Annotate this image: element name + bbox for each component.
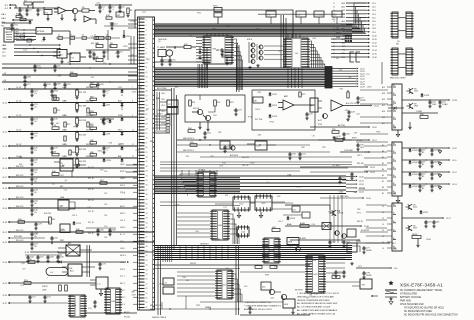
resistor R5 bbox=[82, 7, 95, 12]
resistor R1 bbox=[24, 0, 32, 8]
svg-text:C.S: C.S bbox=[88, 308, 92, 310]
svg-text:VR1: VR1 bbox=[267, 15, 271, 17]
wire B3 terminations bbox=[346, 176, 364, 194]
svg-text:R50 4.7K: R50 4.7K bbox=[16, 240, 24, 242]
wire W31 bbox=[155, 268, 241, 270]
svg-text:12: 12 bbox=[132, 156, 134, 158]
wire W48 bbox=[160, 201, 285, 203]
capacitor on J1-10 a bbox=[30, 103, 38, 111]
ic U5 bbox=[390, 12, 413, 43]
diode CR23 bbox=[287, 216, 296, 220]
resistor col x55 bbox=[54, 95, 61, 113]
svg-text:K12: K12 bbox=[337, 136, 340, 138]
svg-text:R74: R74 bbox=[57, 75, 60, 77]
box U15 bbox=[347, 229, 356, 237]
wire W13 bbox=[310, 124, 377, 129]
svg-text:CMX: CMX bbox=[432, 104, 437, 106]
svg-text:CR26: CR26 bbox=[367, 86, 372, 88]
ic U19 bbox=[305, 255, 326, 293]
svg-text:COAX: COAX bbox=[442, 103, 448, 106]
svg-text:R31 2W: R31 2W bbox=[79, 92, 86, 94]
diode J1-12 end bbox=[121, 132, 124, 136]
ground G9 bbox=[346, 118, 349, 121]
svg-text:K79: K79 bbox=[115, 53, 118, 55]
svg-text:CR56: CR56 bbox=[250, 163, 255, 165]
svg-text:VR2: VR2 bbox=[117, 15, 121, 17]
ground G3 bbox=[73, 14, 76, 21]
capacitor C63 bbox=[430, 184, 440, 192]
resistor R26 bbox=[347, 90, 349, 98]
svg-text:Z7: Z7 bbox=[121, 146, 123, 148]
resistor R59 bbox=[332, 129, 339, 133]
wire row J1-11 bbox=[3, 115, 138, 119]
svg-text:R44: R44 bbox=[109, 46, 112, 48]
wire RB2 row 2 bbox=[402, 171, 457, 174]
wire W12 bbox=[200, 95, 215, 112]
svg-text:J2-31: J2-31 bbox=[359, 180, 364, 182]
label GND strip bbox=[158, 39, 167, 41]
svg-text:U21: U21 bbox=[336, 58, 339, 60]
svg-text:WHT: WHT bbox=[3, 49, 7, 51]
svg-text:DEM: DEM bbox=[336, 37, 341, 39]
svg-text:L14: L14 bbox=[35, 208, 38, 210]
ground J1-12 r bbox=[75, 139, 78, 142]
transistor Q18 bbox=[406, 225, 418, 231]
resistor RB1 bbox=[70, 72, 77, 76]
wire stair3 bbox=[352, 10, 366, 26]
svg-text:B2: B2 bbox=[382, 181, 384, 183]
wire W47 bbox=[8, 237, 45, 239]
capacitor C8 bbox=[102, 50, 109, 58]
svg-text:LIN0: LIN0 bbox=[15, 29, 19, 31]
resistor R53 bbox=[24, 280, 31, 285]
svg-text:56: 56 bbox=[146, 279, 148, 281]
svg-text:* DENOTES J CONNECTOR: * DENOTES J CONNECTOR bbox=[244, 302, 271, 304]
wire stair2 bbox=[352, 7, 366, 26]
wire feed c1 bbox=[366, 211, 387, 213]
capacitor C61 bbox=[430, 160, 440, 168]
wire W52 bbox=[16, 34, 34, 42]
svg-text:R47 4.7K: R47 4.7K bbox=[16, 197, 24, 199]
label J1-21 v bbox=[16, 230, 24, 232]
op-amp AR4 bbox=[331, 100, 379, 111]
wire stair4 bbox=[352, 14, 366, 28]
box X1 bbox=[163, 278, 174, 294]
capacitor on J1-13 c bbox=[50, 146, 58, 154]
resistor R56 bbox=[270, 266, 277, 269]
svg-text:C1 .02: C1 .02 bbox=[16, 100, 21, 102]
label J1-20 v bbox=[16, 206, 24, 208]
capacitor on J1-9 a bbox=[30, 89, 38, 97]
svg-text:J2-26: J2-26 bbox=[372, 127, 377, 129]
svg-text:C55 .1: C55 .1 bbox=[278, 221, 283, 223]
transistor Q13 bbox=[330, 210, 344, 216]
resistor R58 bbox=[18, 219, 25, 223]
svg-text:14: 14 bbox=[333, 14, 335, 16]
resistor R25 bbox=[299, 92, 306, 97]
svg-text:22: 22 bbox=[333, 42, 335, 44]
svg-text:12: 12 bbox=[333, 6, 335, 8]
svg-text:16: 16 bbox=[146, 91, 148, 93]
svg-text:38: 38 bbox=[146, 194, 148, 196]
resistor R9 bbox=[96, 57, 103, 62]
svg-text:C20: C20 bbox=[297, 15, 300, 17]
svg-text:J2-33: J2-33 bbox=[370, 167, 375, 169]
resistor R51 bbox=[412, 234, 421, 239]
ground G1 bbox=[46, 18, 49, 21]
svg-text:J2-12: J2-12 bbox=[372, 43, 377, 45]
svg-text:17: 17 bbox=[146, 95, 148, 97]
svg-text:Z0: Z0 bbox=[121, 109, 123, 111]
svg-text:J2-6: J2-6 bbox=[372, 21, 376, 23]
strip pin labels left bbox=[121, 89, 123, 160]
label misc3 bbox=[44, 213, 77, 217]
capacitor C73 bbox=[93, 300, 96, 308]
svg-text:MTLB: MTLB bbox=[247, 39, 253, 41]
label J1-12 l2 bbox=[16, 129, 67, 131]
diode CR16 bbox=[421, 93, 430, 97]
svg-text:J1-11: J1-11 bbox=[3, 117, 7, 119]
svg-text:A8: A8 bbox=[343, 31, 345, 34]
svg-text:R27 10K: R27 10K bbox=[255, 119, 263, 121]
svg-text:CR15: CR15 bbox=[76, 223, 82, 225]
capacitor C52 bbox=[328, 240, 336, 248]
transistor Q21 bbox=[281, 294, 286, 299]
svg-text:U7: U7 bbox=[169, 104, 171, 106]
svg-text:J2-27: J2-27 bbox=[372, 140, 377, 142]
wire W51 bbox=[16, 35, 34, 38]
svg-text:TP52: TP52 bbox=[289, 247, 293, 249]
wire row J1-18 bbox=[2, 186, 137, 190]
ic U9 bbox=[196, 172, 217, 197]
capacitor C30 bbox=[288, 152, 296, 160]
diode J1-11 end bbox=[121, 117, 124, 121]
capacitor C5 bbox=[108, 5, 115, 13]
ic A8 driver bbox=[392, 84, 402, 130]
svg-text:15: 15 bbox=[146, 86, 148, 88]
svg-text:U15: U15 bbox=[59, 163, 62, 165]
wire vert W28 bbox=[87, 245, 90, 277]
svg-text:SPK 4: SPK 4 bbox=[120, 269, 125, 271]
wire row J1-26 bbox=[2, 294, 70, 297]
svg-text:J2-36: J2-36 bbox=[366, 198, 371, 200]
resistor J1-10 mid bbox=[52, 96, 59, 100]
svg-text:3: 3 bbox=[146, 30, 147, 32]
capacitor C14 bbox=[160, 57, 168, 67]
capacitor C12b bbox=[110, 22, 118, 30]
svg-text:J1-28: J1-28 bbox=[3, 222, 8, 224]
wire W9 bbox=[155, 47, 210, 70]
svg-text:R2: R2 bbox=[306, 297, 308, 299]
diode CR22 bbox=[59, 261, 62, 264]
wire row J1-22 bbox=[2, 240, 154, 244]
diode CR19 bbox=[409, 172, 418, 176]
wire W21 bbox=[215, 203, 290, 204]
capacitor C76 bbox=[342, 270, 345, 278]
svg-text:K13: K13 bbox=[225, 195, 228, 197]
svg-text:45: 45 bbox=[146, 227, 148, 229]
svg-text:C6: C6 bbox=[382, 212, 384, 214]
op-amp AR1 bbox=[54, 7, 72, 14]
capacitor above C17 bbox=[23, 83, 31, 89]
svg-text:Q41: Q41 bbox=[87, 207, 91, 209]
svg-text:MIC MUTE LN: MIC MUTE LN bbox=[150, 305, 162, 307]
wire feed 0 bbox=[360, 89, 388, 91]
resistor R8 bbox=[110, 43, 117, 48]
resistor J1-11 x92 bbox=[90, 111, 97, 115]
wire U3 bottom risers bbox=[198, 64, 208, 88]
svg-text:U38: U38 bbox=[353, 192, 356, 194]
svg-text:J1-26: J1-26 bbox=[2, 295, 7, 297]
bypass row bbox=[258, 11, 345, 24]
svg-text:ALL RESISTANCE VALUES IN OHMS: ALL RESISTANCE VALUES IN OHMS 1/4W bbox=[297, 302, 337, 305]
svg-text:RED NOTE 2: RED NOTE 2 bbox=[183, 150, 194, 152]
svg-text:C96: C96 bbox=[104, 237, 107, 239]
resistor J1-14 mid bbox=[52, 152, 59, 156]
svg-text:R32 2W: R32 2W bbox=[79, 106, 86, 108]
svg-text:AD7: AD7 bbox=[342, 27, 346, 30]
ground G8 bbox=[206, 121, 209, 131]
diode CR4b bbox=[29, 20, 32, 24]
resistor pair x70 bbox=[69, 150, 76, 155]
svg-text:Z0: Z0 bbox=[121, 119, 123, 121]
svg-text:J1-18: J1-18 bbox=[2, 188, 7, 190]
svg-text:C87 .05: C87 .05 bbox=[242, 165, 248, 167]
diode CR11 bbox=[269, 92, 278, 96]
svg-text:CR95: CR95 bbox=[34, 232, 39, 234]
capacitor C59 bbox=[418, 184, 426, 192]
svg-text:TP9: TP9 bbox=[322, 147, 325, 149]
box U8a bbox=[253, 97, 263, 103]
svg-text:11: 11 bbox=[333, 3, 335, 5]
svg-text:MIC 3: MIC 3 bbox=[120, 199, 125, 201]
wire feed c3 bbox=[366, 227, 387, 229]
svg-text:TP67: TP67 bbox=[328, 212, 332, 214]
svg-text:J1-27: J1-27 bbox=[2, 303, 7, 305]
wire row J1-16 bbox=[2, 166, 137, 170]
svg-text:B5: B5 bbox=[382, 193, 384, 195]
capacitor C54b bbox=[338, 176, 348, 184]
svg-text:C/DIN: C/DIN bbox=[412, 162, 418, 164]
svg-text:COM GND: COM GND bbox=[344, 150, 354, 152]
ic U13 bbox=[255, 194, 272, 211]
svg-text:J1-2: J1-2 bbox=[4, 8, 8, 10]
svg-text:R48 4.7K: R48 4.7K bbox=[16, 206, 24, 208]
capacitor on J1-9 b bbox=[102, 89, 110, 97]
wire loop1 bbox=[185, 95, 245, 122]
resistor R14 bbox=[106, 15, 112, 19]
svg-text:C4 .02: C4 .02 bbox=[16, 144, 21, 146]
svg-text:PN 103: PN 103 bbox=[124, 317, 130, 319]
svg-text:U69: U69 bbox=[146, 59, 149, 61]
ground G18 bbox=[350, 262, 353, 265]
box 4MHZ bbox=[222, 52, 232, 62]
wire W44 bbox=[160, 168, 348, 171]
capacitor row J1-17 bbox=[30, 176, 38, 185]
svg-text:C90: C90 bbox=[104, 171, 107, 173]
svg-text:R75 1K: R75 1K bbox=[88, 222, 95, 224]
svg-text:LIN 1: LIN 1 bbox=[161, 99, 165, 101]
svg-text:Q20: Q20 bbox=[21, 263, 25, 265]
capacitor C12 bbox=[92, 52, 95, 60]
svg-text:J1-17: J1-17 bbox=[2, 177, 7, 179]
svg-text:58: 58 bbox=[146, 288, 148, 290]
svg-text:L90: L90 bbox=[67, 276, 70, 278]
svg-text:CR92: CR92 bbox=[123, 46, 128, 48]
capacitor on J1-9 c bbox=[50, 89, 58, 97]
star mark bbox=[388, 281, 393, 286]
diode CR13 bbox=[269, 114, 278, 118]
svg-text:X1: X1 bbox=[165, 283, 167, 285]
ic U4 bbox=[283, 38, 310, 68]
svg-text:J1-8: J1-8 bbox=[2, 56, 6, 58]
box L3 bbox=[90, 277, 108, 289]
ground tri 1 bbox=[438, 162, 441, 166]
svg-text:7: 7 bbox=[132, 87, 133, 89]
svg-text:SPD GND: SPD GND bbox=[340, 196, 349, 198]
svg-text:L21: L21 bbox=[82, 295, 85, 297]
svg-text:RMT 5: RMT 5 bbox=[120, 297, 125, 299]
svg-text:NT INDICATES NO ISLATED OR HOL: NT INDICATES NO ISLATED OR HOLE bbox=[404, 307, 445, 310]
wire W22d bbox=[320, 196, 371, 200]
svg-text:U11: U11 bbox=[226, 268, 229, 270]
resistor J1-14 x92 bbox=[90, 152, 97, 156]
svg-text:R201: R201 bbox=[213, 6, 218, 8]
transistor Q1 bbox=[72, 8, 82, 13]
svg-text:PUR R: PUR R bbox=[42, 286, 48, 288]
capacitor on J1-11 b bbox=[102, 117, 110, 125]
wire riser bundle V2 bbox=[172, 88, 177, 250]
transistor Q15 bbox=[407, 88, 419, 94]
svg-text:20: 20 bbox=[333, 35, 335, 37]
svg-text:CR35: CR35 bbox=[109, 22, 114, 24]
wire bus band B1 bbox=[155, 24, 353, 38]
resistor R40 bbox=[52, 171, 59, 176]
svg-text:R59: R59 bbox=[219, 285, 222, 287]
svg-text:C93: C93 bbox=[166, 114, 169, 116]
ic U6 bbox=[390, 48, 414, 80]
label VB bbox=[3, 73, 7, 82]
svg-text:11: 11 bbox=[132, 144, 134, 146]
svg-text:U21: U21 bbox=[293, 210, 296, 212]
capacitor C54 bbox=[428, 100, 437, 108]
svg-text:C94: C94 bbox=[104, 215, 107, 217]
svg-text:ALL LIGHT CAPACITORS ARE 100V: ALL LIGHT CAPACITORS ARE 100V LJA bbox=[297, 312, 336, 315]
wire riser V3 bbox=[237, 45, 240, 92]
label loop2 bbox=[255, 95, 289, 121]
svg-text:L72: L72 bbox=[27, 39, 30, 41]
resistor R45 bbox=[300, 222, 309, 228]
svg-text:C51: C51 bbox=[366, 74, 369, 76]
wire W53 bbox=[356, 140, 388, 142]
svg-text:SPK33: SPK33 bbox=[190, 263, 196, 265]
wire W7 bbox=[107, 30, 109, 60]
label W43 bbox=[230, 154, 239, 157]
svg-text:Q9: Q9 bbox=[91, 36, 93, 38]
svg-text:CR13: CR13 bbox=[272, 116, 278, 118]
svg-text:43: 43 bbox=[146, 218, 148, 220]
svg-text:LIN 0: LIN 0 bbox=[161, 93, 165, 95]
svg-text:CR68: CR68 bbox=[338, 192, 343, 194]
label LIN8 bbox=[157, 110, 163, 116]
transistor Q9 bbox=[192, 109, 203, 114]
ic U8b bbox=[310, 98, 322, 112]
wire W50 bbox=[2, 22, 30, 23]
svg-text:J1-24: J1-24 bbox=[2, 262, 7, 264]
capacitor C25 bbox=[305, 112, 313, 120]
wire U19 right fan bbox=[326, 258, 345, 273]
svg-text:R63 1K: R63 1K bbox=[357, 221, 364, 223]
wire row J1-21 bbox=[2, 230, 154, 234]
svg-text:25: 25 bbox=[333, 53, 335, 55]
strip rowset 2 bbox=[155, 127, 170, 132]
resistor col x65 bbox=[64, 122, 71, 141]
wire U17 left fan bbox=[177, 272, 215, 296]
svg-text:R92: R92 bbox=[277, 196, 280, 198]
cluster TR bbox=[131, 36, 134, 64]
resistor R60b bbox=[20, 17, 26, 21]
label col TL bbox=[1, 13, 6, 28]
svg-text:J2-10: J2-10 bbox=[372, 35, 377, 37]
svg-text:B8: B8 bbox=[382, 169, 384, 171]
wire sense rows bbox=[2, 44, 61, 57]
label spare bbox=[205, 306, 212, 309]
svg-text:GRN 2: GRN 2 bbox=[120, 178, 126, 180]
svg-text:CR34: CR34 bbox=[97, 151, 102, 153]
svg-text:33: 33 bbox=[146, 171, 148, 173]
svg-text:2222: 2222 bbox=[414, 91, 418, 93]
svg-text:VOL 6: VOL 6 bbox=[120, 220, 125, 222]
wire W45 bbox=[272, 209, 302, 215]
capacitor row J1-22 bbox=[30, 241, 38, 250]
svg-text:R61: R61 bbox=[16, 34, 19, 36]
svg-text:J1-14: J1-14 bbox=[2, 158, 7, 160]
svg-text:J4-2: J4-2 bbox=[394, 268, 398, 270]
wire W29 bbox=[85, 312, 137, 314]
svg-text:CHAS ISOLATED GND: CHAS ISOLATED GND bbox=[400, 303, 424, 306]
wire W24 bbox=[290, 238, 360, 241]
ic A12 bbox=[62, 264, 95, 276]
ground tri 0 bbox=[438, 150, 441, 154]
capacitor C2 bbox=[25, 8, 32, 16]
svg-text:LIN BUS 8: LIN BUS 8 bbox=[200, 244, 209, 246]
connector P1 bbox=[4, 28, 14, 42]
wire feed c4 bbox=[366, 235, 387, 237]
svg-text:K79: K79 bbox=[219, 166, 222, 168]
ic A11 bbox=[58, 242, 92, 256]
wire bus band B3 bbox=[155, 176, 347, 194]
svg-text:37: 37 bbox=[146, 189, 148, 191]
wire row VB4 bbox=[2, 182, 138, 184]
svg-text:C51 .1: C51 .1 bbox=[72, 215, 77, 217]
wire stair5 bbox=[352, 17, 366, 28]
capacitor C84 bbox=[203, 131, 211, 139]
svg-text:J2-10: J2-10 bbox=[452, 148, 457, 150]
wire row J1-25 bbox=[2, 282, 96, 285]
svg-text:Q19: Q19 bbox=[216, 49, 220, 51]
svg-text:C96: C96 bbox=[189, 36, 192, 38]
svg-text:J2-9: J2-9 bbox=[372, 32, 376, 34]
label J1-13 pin bbox=[132, 144, 134, 146]
svg-text:K94: K94 bbox=[222, 162, 225, 164]
capacitor C7 bbox=[88, 50, 95, 58]
svg-text:C91: C91 bbox=[104, 182, 107, 184]
wire riser V6 bbox=[236, 245, 239, 315]
svg-text:NC INDICATES NOT USED: NC INDICATES NOT USED bbox=[404, 310, 432, 313]
node +5V bbox=[96, 2, 100, 4]
svg-text:TP83: TP83 bbox=[255, 28, 259, 30]
svg-text:MOD 8: MOD 8 bbox=[120, 255, 126, 257]
